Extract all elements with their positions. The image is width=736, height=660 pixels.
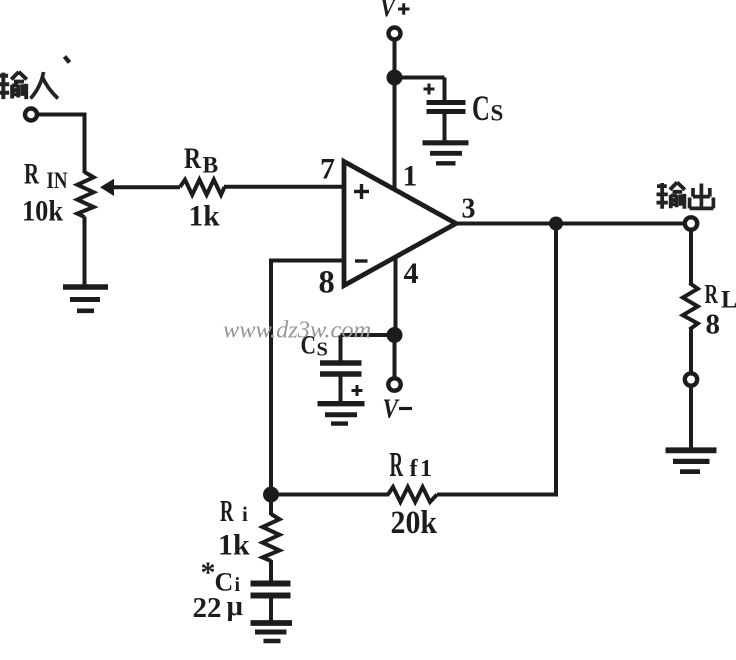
svg-text:4: 4	[404, 257, 419, 290]
svg-text:C: C	[472, 88, 490, 128]
svg-text:R: R	[220, 493, 234, 528]
svg-text:1: 1	[403, 161, 418, 193]
svg-text:7: 7	[320, 153, 335, 186]
svg-text:1k: 1k	[189, 201, 221, 233]
svg-text:8: 8	[319, 265, 335, 301]
svg-text:i: i	[242, 502, 248, 526]
svg-text:B: B	[203, 153, 219, 179]
svg-text:22: 22	[193, 592, 222, 624]
svg-text:S: S	[491, 101, 504, 126]
svg-text:3: 3	[462, 194, 476, 225]
svg-text:R: R	[184, 142, 201, 175]
svg-text:V: V	[380, 0, 397, 23]
svg-text:8: 8	[706, 309, 721, 341]
svg-text:10k: 10k	[22, 195, 63, 228]
svg-text:f1: f1	[410, 456, 435, 482]
svg-text:IN: IN	[47, 168, 68, 193]
svg-text:1k: 1k	[218, 529, 250, 562]
svg-text:μ: μ	[227, 590, 244, 622]
svg-text:20k: 20k	[391, 505, 438, 541]
svg-text:V: V	[383, 394, 400, 424]
svg-text:R: R	[24, 159, 39, 191]
svg-text:R: R	[705, 278, 719, 309]
svg-text:www.dz3w.com: www.dz3w.com	[223, 317, 371, 344]
svg-text:*: *	[201, 556, 216, 589]
svg-text:R: R	[390, 445, 404, 484]
svg-text:L: L	[721, 287, 736, 314]
